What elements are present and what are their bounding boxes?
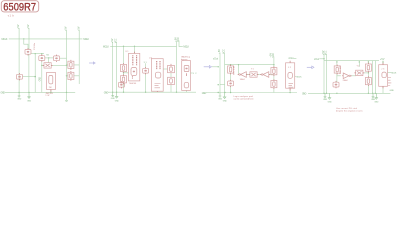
wire C5 label down: [145, 63, 147, 92]
svg-text:xOut: xOut: [314, 58, 319, 61]
rect3 inner: [288, 73, 293, 79]
inverter U4 right-pointing: [342, 73, 352, 79]
resistor R8 b4: [334, 65, 340, 75]
wire V x176.5: [176, 41, 178, 93]
svg-text:+5V: +5V: [65, 26, 68, 31]
junction loop left: [238, 64, 239, 65]
svg-text:GND: GND: [328, 102, 333, 104]
wire bus3: [206, 92, 297, 94]
wire V x29: [28, 28, 30, 92]
junction R3R4: [123, 72, 124, 73]
wire H C2-C3 y57.9: [45, 57, 54, 59]
capacitor C9 b4: [333, 81, 339, 88]
svg-text:GND: GND: [390, 90, 395, 92]
capacitor C7 b3: [228, 80, 234, 87]
bus4 junctions: [323, 93, 324, 94]
junction crystal left: [41, 65, 42, 66]
svg-text:C1 10n: C1 10n: [34, 42, 36, 50]
off-page flag blue 1: [89, 62, 95, 64]
resistor R9: [365, 63, 371, 73]
svg-text:1W: 1W: [49, 87, 52, 89]
wire V x273.9 top: [273, 57, 275, 68]
wire R1 stubs: [67, 64, 80, 66]
ground sym 3 long: [65, 92, 68, 101]
svg-text:MCLK: MCLK: [2, 38, 8, 41]
IC U1 pin text col1: [132, 55, 134, 65]
svg-text:1 W: 1 W: [45, 95, 49, 97]
svg-text:MCLK: MCLK: [296, 76, 302, 78]
svg-text:GND: GND: [115, 100, 120, 102]
svg-text:GND: GND: [1, 92, 6, 95]
svg-text:R8 1M: R8 1M: [340, 65, 342, 74]
connector J1 inner: [49, 75, 53, 84]
junction x48.7: [48, 57, 49, 58]
svg-text:+5V: +5V: [218, 49, 221, 54]
wire R2 stubs: [67, 75, 80, 77]
wire rect2 to stack: [163, 68, 167, 70]
svg-text:+5V: +5V: [27, 24, 30, 29]
wire R5 col: [230, 65, 232, 93]
wire rect3 bottom: [289, 88, 291, 92]
ground sym b4-2: [328, 93, 331, 99]
junction xout: [323, 58, 324, 59]
wire H under C1 y53.7: [31, 53, 44, 55]
rect1 top pin tick: [134, 52, 136, 54]
wire H MCLK y38.9: [9, 38, 83, 40]
wire V x224.9: [224, 53, 226, 93]
crystal Y1: [249, 72, 259, 77]
wire V x35.2: [34, 54, 36, 93]
wire flag link: [212, 66, 218, 68]
bus junctions: [18, 92, 19, 93]
wire rect4 right stub: [388, 72, 392, 74]
wire bus2: [108, 91, 196, 93]
svg-text:GND: GND: [302, 93, 307, 96]
svg-text:+5V: +5V: [111, 38, 114, 43]
IC U2 pin label col2: [159, 61, 161, 70]
svg-text:6509R7: 6509R7: [3, 2, 36, 14]
J1 bottom pin tick: [50, 90, 52, 92]
bus junctions: [112, 92, 113, 93]
svg-text:X2: X2: [193, 73, 198, 75]
wire C3 right y58.2: [60, 57, 67, 59]
svg-text:VCC: VCC: [177, 37, 180, 42]
IC U2 inner element: [155, 72, 160, 78]
osc top wire y64.7: [225, 64, 274, 66]
wire V x19: [18, 28, 20, 92]
svg-text:74HC04: 74HC04: [129, 83, 137, 85]
wire rect2 bottom pin: [156, 91, 158, 92]
svg-text:+5V: +5V: [380, 58, 385, 61]
svg-text:74H04: 74H04: [343, 80, 348, 82]
off-page flag blue 2: [204, 66, 212, 69]
ground sym 2: [28, 92, 31, 98]
resistor R1: [68, 60, 74, 70]
wire bus4: [308, 92, 390, 94]
svg-text:GND: GND: [27, 101, 32, 103]
wire C9 feed: [336, 76, 338, 82]
IC U2 outline: [151, 59, 163, 91]
junction small on v218: [218, 84, 219, 85]
wire R8 col: [337, 61, 341, 76]
rect2 bottom pin tick: [156, 90, 158, 93]
IC U1 inner dot: [133, 71, 135, 73]
box A top pin tick: [170, 64, 172, 66]
resistor R6: [271, 66, 277, 76]
rect3 bottom marks: [289, 83, 294, 87]
svg-text:74H04: 74H04: [240, 79, 245, 81]
wire C4 to v35: [23, 76, 36, 78]
IC U2 bottom marks: [155, 84, 161, 88]
wire bus1: [5, 91, 75, 93]
IC U1 bottom pin tick: [131, 76, 133, 78]
crystal Y2: [354, 70, 364, 75]
svg-text:+5V: +5V: [17, 24, 20, 29]
junction R8 top: [336, 61, 337, 62]
junction flag-wire: [218, 66, 219, 67]
wire xout to junction: [319, 58, 324, 60]
junction x66.5 y75.8: [66, 75, 67, 76]
wire rect3 right stub: [295, 75, 296, 77]
wire V x123.5 down to R3: [123, 46, 125, 92]
svg-text:MCLK: MCLK: [183, 46, 189, 49]
capacitor C6 b2 bottom: [118, 81, 124, 88]
svg-text:J2: J2: [288, 67, 292, 69]
connector rect4: [379, 65, 388, 87]
junction R5 top: [230, 64, 231, 65]
inverter U3B left-pointing: [260, 72, 270, 78]
wire H b4 top y62: [324, 60, 379, 62]
svg-text:GND: GND: [104, 92, 109, 95]
ground sym b3-2: [223, 93, 226, 99]
capacitor C3: [54, 55, 60, 62]
capacitor C1: [25, 48, 31, 55]
svg-text:GND: GND: [17, 98, 22, 100]
svg-text:VCC: VCC: [272, 53, 275, 58]
wire V x218.2: [219, 53, 221, 93]
capacitor C2: [39, 54, 45, 61]
wire rect1 left stub: [127, 72, 129, 74]
IC U1 inner element: [131, 68, 137, 76]
capacitor C5: [143, 67, 149, 74]
ground sym b3-1: [219, 93, 222, 98]
svg-text:VCC: VCC: [325, 50, 328, 55]
junction x123.5: [123, 46, 124, 47]
wire H b2 top y46.3: [110, 45, 176, 47]
resistor R5 b3: [228, 65, 234, 75]
wire crystal right y65.4: [51, 64, 66, 66]
svg-text:Logic analyzer pod: Logic analyzer pod: [234, 95, 254, 98]
wire V x326.5: [326, 54, 328, 93]
junction C4 wire: [34, 76, 36, 78]
rect5 inner element 2: [184, 82, 189, 88]
junction R9 mid: [368, 72, 369, 73]
ground sym b4-1: [324, 93, 327, 98]
svg-text:GND: GND: [374, 102, 379, 104]
IC U1 pin text col2: [136, 55, 138, 65]
rect5 right stub: [191, 72, 193, 74]
svg-text:GND: GND: [38, 77, 41, 82]
wire V x112.7: [112, 42, 114, 92]
wire inv out to crystal: [350, 75, 356, 77]
rect5 inner cap: [184, 66, 189, 72]
svg-text:GND: GND: [223, 101, 228, 103]
svg-text:v1 b: v1 b: [8, 13, 15, 17]
crystal Q1: [43, 63, 53, 68]
component box B mid b2: [168, 77, 175, 84]
svg-text:can be connected here: can be connected here: [234, 98, 255, 101]
wire V x41.8 C2: [41, 54, 43, 93]
rect4 side marks: [388, 78, 391, 86]
connector rect5 b2 right: [182, 61, 191, 91]
wire inv2 in to R stack: [270, 74, 274, 76]
svg-text:Y1: Y1: [251, 69, 255, 71]
IC U2 pin label col1: [156, 61, 158, 70]
svg-text:despite the original circuits: despite the original circuits: [336, 110, 363, 113]
bus3 junctions: [218, 92, 219, 93]
svg-text:U1: U1: [126, 51, 130, 53]
wire connector right bottom pin: [186, 90, 188, 92]
svg-text:N1: N1: [46, 55, 50, 57]
junction x23.8: [23, 38, 24, 39]
svg-text:+5V: +5V: [77, 26, 80, 31]
connector rect3: [286, 63, 295, 88]
wire V x375.3: [374, 61, 376, 94]
ground sym 1: [18, 92, 21, 97]
svg-text:GND: GND: [202, 92, 207, 95]
wire V x23.8 to C1: [24, 39, 28, 50]
svg-text:VCC: VCC: [223, 49, 226, 54]
wire crystal right y72.9: [363, 72, 369, 74]
svg-text:J3: J3: [381, 68, 385, 70]
connector J1 outline: [47, 72, 56, 89]
wire R9 col: [367, 61, 369, 94]
junction x66.5 y64.9: [66, 65, 67, 66]
wire inv1 left leg: [238, 65, 240, 75]
resistor R10 b4: [365, 76, 371, 86]
svg-text:MCLK: MCLK: [391, 72, 397, 74]
wire crystal left y65.4: [42, 64, 44, 66]
junction loop right: [273, 64, 274, 65]
off-page flag blue 3: [307, 66, 314, 69]
wire V x79.2: [78, 30, 80, 84]
ground sym b2-1: [111, 92, 114, 97]
svg-text:VCC: VCC: [115, 38, 118, 43]
wire rect4 bottom pin: [382, 86, 384, 93]
wire V x48.7 to crystal: [48, 58, 50, 63]
resistor R2: [68, 71, 74, 81]
rect3 bottom pin tick: [289, 88, 291, 90]
wire stack mid: [170, 73, 172, 93]
IC U1 outline: [129, 53, 140, 81]
wire V x116.6: [116, 42, 118, 92]
ground sym b2-2: [115, 92, 118, 98]
ground sym b4-4: [375, 93, 378, 99]
junction R9 top: [368, 61, 369, 62]
wire rect4 top pin: [382, 61, 384, 65]
wire V x66.5: [66, 30, 68, 92]
resistor R3: [121, 63, 127, 73]
rect4 inner: [382, 72, 386, 78]
junction crystal top: [359, 61, 360, 62]
wire crystal right: [257, 74, 261, 76]
svg-text:X1: X1: [144, 62, 148, 64]
wire V x372.7: [372, 61, 374, 94]
svg-text:MCLK: MCLK: [103, 46, 109, 49]
junction x41.8: [41, 53, 42, 54]
wire crystal top pin: [358, 61, 360, 67]
wire V x179 corner to label: [179, 41, 183, 47]
resistor R7: [271, 79, 277, 89]
wire V x134.5 to rect1 top: [134, 46, 136, 53]
component box A mid b2: [168, 66, 175, 73]
wire R stack mid: [273, 75, 275, 93]
wire H small y84.7: [220, 84, 225, 86]
junction x134.5: [134, 46, 135, 47]
wire inv1 to crystal: [246, 74, 250, 76]
title box: [1, 1, 38, 12]
svg-text:xOut: xOut: [288, 57, 293, 60]
svg-text:R5 1M: R5 1M: [234, 66, 236, 75]
junction rect4 top: [382, 61, 383, 62]
rect4 pin ticks: [382, 63, 384, 89]
resistor R4: [121, 74, 127, 84]
wire tall rect bottom pin: [50, 90, 52, 93]
wire xout right stub: [294, 57, 297, 59]
inverter U3A left-pointing: [238, 72, 248, 78]
capacitor C4 left series: [17, 73, 23, 80]
svg-text:xOut: xOut: [213, 57, 218, 60]
rect3 top pin tick: [289, 61, 291, 63]
ground sym b4-3: [372, 93, 375, 98]
rect5 mid tick: [186, 73, 188, 76]
junction x35.2: [35, 53, 36, 54]
wire V x324: [323, 54, 325, 93]
svg-text:MCLK: MCLK: [83, 38, 89, 41]
